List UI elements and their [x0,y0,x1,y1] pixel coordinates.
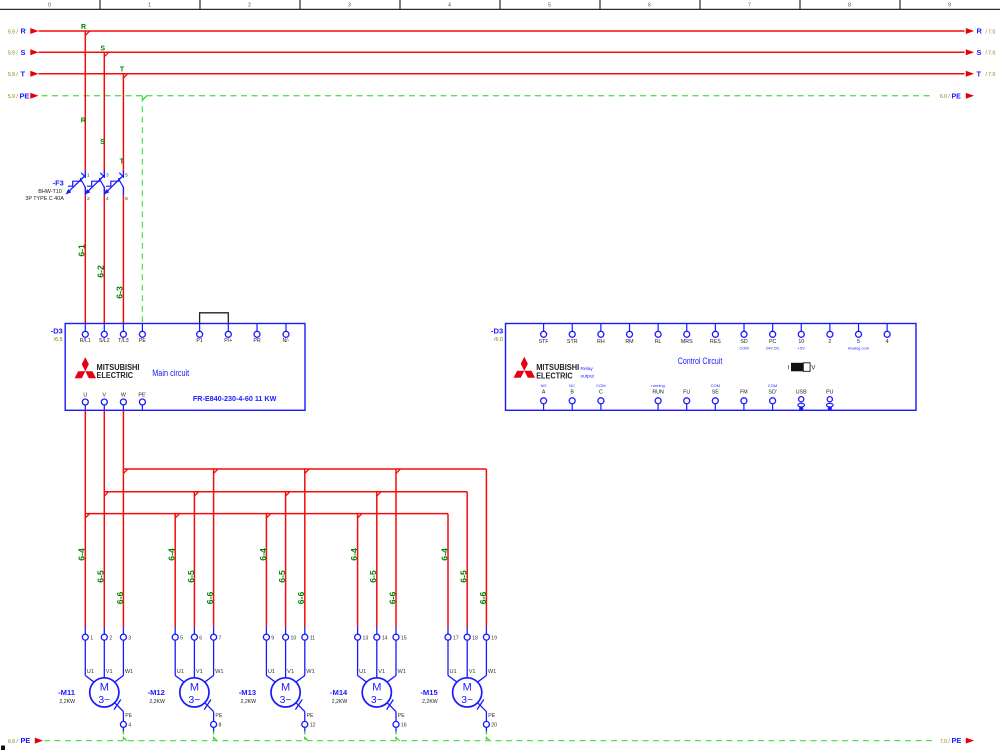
svg-text:2: 2 [109,636,112,642]
svg-text:1: 1 [148,2,151,8]
terminal SD (control top) [739,324,748,351]
node wire label 6-1 [76,244,86,257]
node frame corner mark [1,746,5,751]
svg-text:RUN: RUN [652,389,664,395]
wire 6-1 breaker to inverter [84,195,86,331]
svg-text:T/L3: T/L3 [118,338,129,344]
node T label at rail [120,67,125,74]
node wire label 6-6 (-M15) [478,592,488,605]
svg-text:1: 1 [87,172,90,178]
svg-text:V: V [811,366,815,372]
svg-text:STR: STR [567,339,578,345]
terminal T/L3 (main top) [118,324,129,345]
svg-text:19: 19 [491,636,497,642]
terminal P1 (main top) [196,324,203,345]
node phase label S above breaker [100,139,105,146]
node wire label 6-3 [114,286,124,299]
svg-text:3~: 3~ [188,695,200,706]
circuit breaker F3 3-pole BHW-T10 [66,171,128,202]
svg-text:N/-: N/- [282,338,289,344]
terminal RUN (control bottom) [651,383,664,411]
node S label at rail [100,45,105,52]
terminal 5 (control top) [848,324,870,351]
svg-text:4: 4 [128,723,131,729]
terminal FU (control bottom) [683,389,690,410]
svg-text:4: 4 [886,339,889,345]
svg-text:6-5: 6-5 [186,570,196,583]
svg-text:6-6: 6-6 [387,592,397,605]
node D3 designator (main) [51,327,63,343]
svg-text:3~: 3~ [371,695,383,706]
svg-text:V1: V1 [106,669,113,675]
wire T drop to breaker [122,74,124,172]
svg-text:PE: PE [952,736,962,745]
svg-text:12: 12 [310,723,316,729]
terminal U (main bottom) [82,393,88,411]
svg-text:6-4: 6-4 [439,548,449,561]
svg-text:8: 8 [219,723,222,729]
node PE junction tick [142,96,146,100]
svg-text:-M13: -M13 [239,688,256,697]
svg-text:NO: NO [541,383,547,388]
terminal RM (control top) [625,324,633,345]
svg-text:R/L1: R/L1 [80,338,91,344]
wire PE drop -M12 to PE line [214,731,218,741]
svg-text:/ 7.0: / 7.0 [986,72,996,78]
svg-text:6.0 /: 6.0 / [940,94,950,100]
wire U drop to motor -M13 [266,514,270,627]
svg-text:5: 5 [180,636,183,642]
node PE rail right arrow + label [940,93,974,101]
terminal C (control bottom) [596,383,605,411]
svg-text:W1: W1 [125,669,133,675]
svg-text:RL: RL [655,339,662,345]
svg-text:3~: 3~ [98,695,110,706]
svg-text:B: B [570,389,574,395]
node R label at rail [81,24,86,31]
node motor label -M11 [58,688,76,705]
node wire label 6-5 (-M14) [368,570,378,583]
node R rail right arrow + label [966,27,996,36]
svg-text:BHW-T10: BHW-T10 [38,189,62,195]
terminal PC (control top) [766,324,780,351]
svg-text:COM: COM [711,383,720,388]
svg-text:/6.5: /6.5 [54,337,63,343]
svg-text:4: 4 [106,196,109,202]
terminal 10 (control top) [798,324,806,351]
node S rail right arrow + label [966,48,996,57]
svg-text:U1: U1 [268,669,275,675]
svg-text:16: 16 [401,723,407,729]
svg-text:4: 4 [448,2,451,8]
wire R rail [39,30,965,32]
svg-text:output: output [581,374,595,380]
svg-text:MRS: MRS [681,339,693,345]
wire V phase vertical from inverter to motor M11 [103,410,105,627]
motor -M12 2,2KW [172,627,223,732]
terminal SD' (control bottom) [768,383,777,411]
node F3 labels [25,179,64,202]
wire V drop to motor -M13 [286,492,290,627]
svg-text:6-5: 6-5 [277,570,287,583]
node phase label T above breaker [120,159,125,166]
terminal MRS (control top) [681,324,693,345]
svg-text:Analog com: Analog com [848,346,870,351]
wire PE rail dashed green [42,95,933,97]
node phase label R above breaker [81,118,86,125]
wire PE drop -M13 to PE line [305,731,309,741]
wire W distribution bus [123,469,486,627]
svg-text:FM: FM [740,389,748,395]
svg-text:STF: STF [539,339,550,345]
svg-text:S: S [21,48,26,57]
inverter U1 main circuit block FR-E840 [65,324,305,411]
svg-text:6-5: 6-5 [96,570,106,583]
svg-text:2,2KW: 2,2KW [332,699,348,705]
svg-text:7.0 /: 7.0 / [940,739,950,745]
svg-text:-F3: -F3 [53,179,64,188]
svg-text:-D3: -D3 [491,327,503,336]
motor -M14 2,2KW [355,627,407,732]
svg-text:U: U [83,393,87,399]
node motor label -M12 [148,688,165,705]
svg-text:T: T [120,67,125,74]
svg-text:-D3: -D3 [51,327,63,336]
wire U distribution bus [85,514,448,627]
node R rail left arrow + label [8,27,39,36]
svg-text:PE: PE [21,736,31,745]
svg-text:6-6: 6-6 [115,592,125,605]
jumper P1 to P/+ [200,313,229,324]
svg-text:V1: V1 [378,669,385,675]
svg-text:S: S [100,139,105,146]
svg-text:5: 5 [548,2,551,8]
svg-text:T: T [977,69,982,78]
svg-text:14: 14 [382,636,388,642]
svg-text:V1: V1 [196,669,203,675]
node bottom PE left arrow + label [8,736,43,745]
terminal 2 (control top) [827,324,833,345]
svg-text:6-6: 6-6 [205,592,215,605]
svg-text:V1: V1 [469,669,476,675]
node wire label 6-6 (-M11) [115,592,125,605]
svg-text:U1: U1 [177,669,184,675]
svg-text:+5V: +5V [798,346,806,351]
terminal PE (main top) [139,324,147,345]
terminal FM (control bottom) [740,389,748,410]
wire W drop to motor -M14 [396,469,400,627]
svg-text:13: 13 [363,636,369,642]
svg-text:6-4: 6-4 [77,548,87,561]
svg-text:PU: PU [826,389,834,395]
svg-text:0: 0 [48,2,51,8]
terminal S/L2 (main top) [99,324,110,345]
terminal PE' (main bottom) [138,393,146,411]
svg-text:6: 6 [125,196,128,202]
svg-text:U1: U1 [450,669,457,675]
svg-text:M: M [463,681,472,693]
svg-text:-M14: -M14 [330,688,348,697]
node bottom PE right arrow + label [940,736,974,745]
svg-text:10: 10 [291,636,297,642]
svg-text:SD': SD' [768,389,776,395]
svg-text:PR: PR [253,338,261,344]
svg-text:17: 17 [453,636,459,642]
svg-text:V1: V1 [287,669,294,675]
svg-text:6: 6 [648,2,651,8]
svg-text:8: 8 [848,2,851,8]
svg-text:PE: PE [398,713,405,719]
node R junction tick [85,31,89,35]
svg-text:RH: RH [597,339,605,345]
node wire label 6-5 (-M13) [277,570,287,583]
svg-text:P1: P1 [196,338,203,344]
wire S rail [39,51,965,53]
svg-text:PE: PE [488,713,495,719]
svg-text:COM: COM [739,346,748,351]
svg-text:PE: PE [952,93,962,100]
svg-text:20: 20 [491,723,497,729]
node wire label 6-4 (-M13) [258,548,268,561]
svg-text:PE: PE [307,713,314,719]
svg-text:M: M [100,681,109,693]
svg-text:M: M [190,681,199,693]
svg-text:6-2: 6-2 [95,265,105,278]
node wire label 6-6 (-M12) [205,592,215,605]
svg-text:24V DC: 24V DC [766,346,780,351]
terminal PR (main top) [253,324,261,345]
node bus left junction ticks [85,469,128,518]
svg-text:R: R [81,118,86,125]
wire PE drop to inverter dashed [141,96,143,331]
svg-text:10: 10 [798,339,804,345]
svg-text:6: 6 [199,636,202,642]
wire V drop to motor -M14 [377,492,381,627]
svg-text:S: S [100,45,105,52]
svg-text:W1: W1 [488,669,496,675]
svg-text:3: 3 [128,636,131,642]
svg-text:-M11: -M11 [58,688,76,697]
svg-text:3: 3 [348,2,351,8]
terminal RES (control top) [710,324,721,345]
inverter control circuit block [506,324,917,411]
svg-text:3: 3 [106,172,109,178]
svg-text:2: 2 [248,2,251,8]
svg-text:running: running [651,383,664,388]
node wire label 6-5 (-M12) [186,570,196,583]
svg-text:2,2KW: 2,2KW [241,699,257,705]
svg-text:W1: W1 [306,669,314,675]
terminal SE (control bottom) [711,383,720,411]
svg-text:-M15: -M15 [420,688,438,697]
svg-text:RM: RM [625,339,633,345]
node motor label -M13 [239,688,256,705]
svg-text:5.9 /: 5.9 / [8,72,18,78]
terminal PU (control bottom) [826,389,834,410]
node T rail left arrow + label [8,69,39,78]
wire W drop to motor -M12 [214,469,218,627]
svg-text:2,2KW: 2,2KW [59,699,75,705]
svg-text:M: M [372,681,381,693]
svg-text:COM: COM [596,383,605,388]
motor -M11 2,2KW [82,627,133,732]
node PE rail left arrow + label [8,91,39,100]
svg-text:T: T [120,159,125,166]
terminal B (control bottom) [569,383,575,411]
wire T rail [39,73,965,75]
svg-text:U1: U1 [359,669,366,675]
node S junction tick [104,52,108,56]
svg-text:RES: RES [710,339,721,345]
svg-text:7: 7 [219,636,222,642]
svg-text:9: 9 [271,636,274,642]
svg-text:FU: FU [683,389,690,395]
svg-text:5.9 /: 5.9 / [8,29,18,35]
svg-text:9: 9 [948,2,951,8]
svg-text:2: 2 [87,196,90,202]
wire PE drop -M11 to PE line [123,731,127,741]
wire 6-3 breaker to inverter [122,195,124,331]
node wire label 6-6 (-M14) [387,592,397,605]
svg-text:T: T [21,69,26,78]
svg-text:6-6: 6-6 [478,592,488,605]
terminal STF (control top) [539,324,550,345]
motor -M15 2,2KW [445,627,497,732]
svg-text:S/L2: S/L2 [99,338,110,344]
terminal A (control bottom) [541,383,547,411]
terminal P/+ (main top) [224,324,232,345]
terminal USB (control bottom) [796,389,807,410]
terminal 4 (control top) [884,324,890,345]
svg-text:18: 18 [472,636,478,642]
wire U drop to motor -M12 [175,514,179,627]
svg-text:6-3: 6-3 [114,286,124,299]
svg-text:W: W [121,393,126,399]
svg-text:R: R [977,27,983,36]
svg-text:-M12: -M12 [148,688,165,697]
wire V distribution bus [104,492,467,627]
svg-text:W1: W1 [398,669,406,675]
svg-text:6-5: 6-5 [459,570,469,583]
node wire label 6-5 (-M15) [459,570,469,583]
motor -M13 2,2KW [263,627,315,732]
node wire label 6-4 (-M12) [167,548,177,561]
wire W phase vertical from inverter to motor M11 [122,410,124,627]
svg-text:/ 7.0: / 7.0 [986,29,996,35]
svg-text:5: 5 [857,339,860,345]
svg-text:PE: PE [125,713,132,719]
svg-text:PE: PE [139,338,147,344]
svg-text:PE': PE' [138,393,146,399]
ruler column strip [0,0,1000,9]
svg-text:R: R [21,27,27,36]
node Control Circuit label [678,356,723,366]
svg-text:W1: W1 [215,669,223,675]
svg-text:SD: SD [740,339,748,345]
svg-text:S: S [977,48,982,57]
node S rail left arrow + label [8,48,39,57]
svg-text:ELECTRIC: ELECTRIC [97,370,134,380]
svg-text:Main circuit: Main circuit [152,368,189,378]
svg-text:2,2KW: 2,2KW [422,699,438,705]
svg-text:V: V [103,393,107,399]
svg-text:7: 7 [748,2,751,8]
svg-text:U1: U1 [87,669,94,675]
logo Mitsubishi (control block) [514,357,595,381]
node T rail right arrow + label [966,69,996,78]
wire S drop to breaker [103,52,105,171]
svg-text:PC: PC [769,339,777,345]
svg-text:/ 7.0: / 7.0 [986,51,996,57]
svg-text:A: A [542,389,546,395]
svg-text:2: 2 [828,339,831,345]
wire U drop to motor -M14 [358,514,362,627]
logo Mitsubishi (main block) [75,357,140,380]
svg-text:6-5: 6-5 [368,570,378,583]
terminal N/- (main top) [282,324,289,345]
svg-text:PE: PE [215,713,222,719]
svg-text:6-4: 6-4 [349,548,359,561]
node motor label -M15 [420,688,438,705]
svg-text:P/+: P/+ [224,338,232,344]
wire bottom PE rail dashed green [44,740,935,742]
switch I/V selector [788,363,816,372]
node wire label 6-6 (-M13) [296,592,306,605]
svg-text:ELECTRIC: ELECTRIC [536,370,573,380]
node D3 designator (control) [491,327,503,343]
svg-text:USB: USB [796,389,807,395]
wire V drop to motor -M12 [194,492,198,627]
svg-text:2,2KW: 2,2KW [149,699,165,705]
node wire label 6-4 (-M14) [349,548,359,561]
svg-text:M: M [281,681,290,693]
svg-text:Relay: Relay [581,366,594,372]
node Main circuit label [152,368,189,378]
node motor label -M14 [330,688,348,705]
svg-text:COM: COM [768,383,777,388]
terminal R/L1 (main top) [80,324,91,345]
svg-text:C: C [599,389,603,395]
svg-text:PE: PE [20,91,30,100]
svg-text:6-1: 6-1 [76,244,86,257]
svg-text:/6.0: /6.0 [494,337,503,343]
node wire label 6-2 [95,265,105,278]
node T junction tick [123,74,127,78]
node wire label 6-4 (-M15) [439,548,449,561]
wire U phase vertical from inverter to motor M11 [84,410,86,627]
svg-text:11: 11 [310,636,315,642]
terminal RH (control top) [597,324,605,345]
terminal STR (control top) [567,324,578,345]
svg-text:1: 1 [90,636,93,642]
svg-text:6-4: 6-4 [258,548,268,561]
wire 6-2 breaker to inverter [103,195,105,331]
svg-text:6-6: 6-6 [296,592,306,605]
node FR-E840 type label [193,394,277,403]
svg-text:R: R [81,24,86,31]
svg-text:5.9 /: 5.9 / [8,94,18,100]
svg-text:NC: NC [569,383,575,388]
svg-text:SE: SE [712,389,720,395]
svg-text:3~: 3~ [280,695,292,706]
wire W drop to motor -M13 [305,469,309,627]
wire PE drop -M15 to PE line [486,731,490,741]
svg-text:3~: 3~ [461,695,473,706]
svg-text:15: 15 [401,636,407,642]
svg-text:Control Circuit: Control Circuit [678,356,723,366]
svg-text:6.9 /: 6.9 / [8,739,18,745]
terminal V (main bottom) [101,393,107,411]
